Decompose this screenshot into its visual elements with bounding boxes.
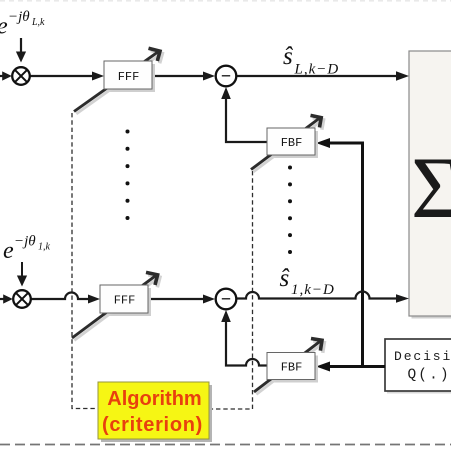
svg-text:ŝ: ŝ — [280, 265, 290, 292]
svg-text:Algorithm: Algorithm — [107, 388, 201, 410]
svg-text:Decision: Decision — [394, 349, 451, 364]
svg-text:ŝ: ŝ — [283, 43, 293, 70]
svg-text:(criterion): (criterion) — [102, 414, 203, 436]
svg-text:L,k−D: L,k−D — [294, 62, 340, 78]
svg-text:L,k: L,k — [31, 17, 45, 28]
svg-text:e: e — [3, 238, 14, 264]
svg-text:FBF: FBF — [281, 136, 303, 150]
svg-text:1,k−D: 1,k−D — [291, 282, 335, 298]
svg-text:FBF: FBF — [281, 361, 303, 375]
svg-text:Σ: Σ — [411, 140, 451, 237]
svg-text:−jθ: −jθ — [8, 9, 30, 25]
svg-text:−jθ: −jθ — [14, 234, 36, 250]
svg-text:e: e — [0, 14, 8, 40]
svg-text:FFF: FFF — [118, 70, 140, 84]
svg-text:1,k: 1,k — [38, 242, 51, 253]
svg-text:FFF: FFF — [114, 294, 136, 308]
svg-text:Q(.): Q(.) — [408, 368, 451, 384]
